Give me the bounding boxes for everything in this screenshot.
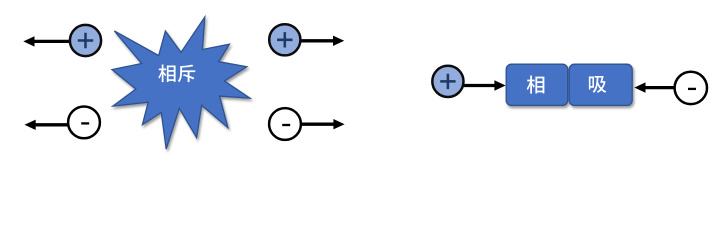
label 相 of 相吸 (527, 76, 545, 94)
arrow left from top-left + charge (33, 40, 70, 43)
positive charge right group (432, 66, 463, 97)
label 斥 of 相斥 (178, 65, 195, 83)
arrow from + toward 相 box (464, 84, 496, 87)
negative charge right group (675, 72, 707, 104)
box 吸 (attract right) (569, 64, 632, 105)
positive charge top-right (269, 24, 300, 55)
box 相 (attract left) (506, 64, 568, 105)
label 相 of 相斥 (158, 64, 175, 82)
arrow left from bottom-left - charge (34, 123, 68, 126)
arrow right from top-right + charge (301, 39, 335, 42)
positive charge top-left (70, 25, 101, 56)
explosion shape (repel) (112, 17, 250, 149)
negative charge bottom-right (269, 108, 301, 140)
arrow from - toward 吸 box (644, 86, 674, 89)
negative charge bottom-left (68, 107, 100, 139)
label 吸 of 相吸 (589, 76, 607, 93)
arrow right from bottom-right - charge (302, 123, 335, 126)
